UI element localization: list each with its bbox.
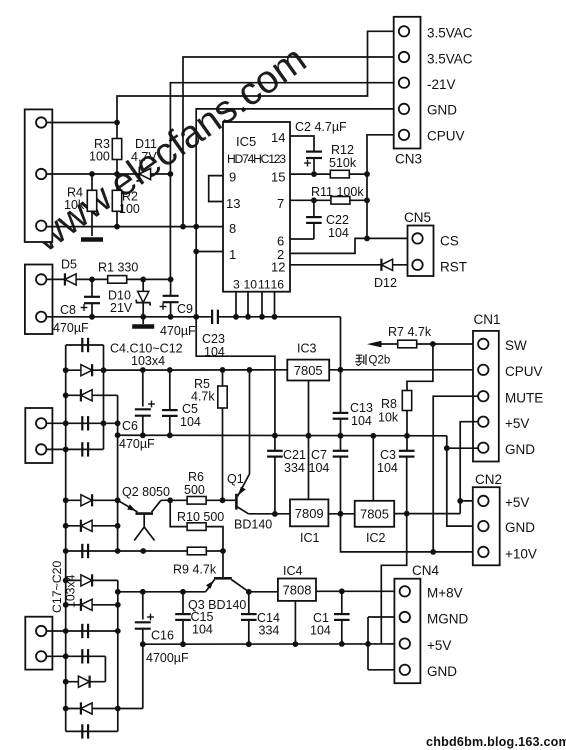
node rung-e-V1 <box>63 679 69 685</box>
svg-text:16: 16 <box>271 278 285 292</box>
capacitor C14 <box>248 592 250 614</box>
connector P1 (3-pin AC input) <box>25 109 53 242</box>
node rungG-V1 <box>63 523 69 529</box>
svg-text:Q1: Q1 <box>227 472 244 486</box>
svg-text:510k: 510k <box>329 156 357 170</box>
wire CN2 +5V stub <box>460 500 478 502</box>
capacitor rung C10 <box>66 344 104 346</box>
wire IC5 pin10 stub <box>247 292 249 317</box>
node rungD-V3 <box>115 420 121 426</box>
pin bracket 9-13 <box>209 176 223 202</box>
node CS junction <box>364 236 370 242</box>
wire IC5 pin16 stub <box>274 292 276 317</box>
svg-text:470µF: 470µF <box>119 437 155 451</box>
node btm-C16 <box>140 641 146 647</box>
svg-text:HD74HC123: HD74HC123 <box>227 152 286 166</box>
svg-text:SW: SW <box>505 338 527 353</box>
svg-text:104: 104 <box>310 624 331 638</box>
svg-text:IC4: IC4 <box>283 564 303 578</box>
wire IC5 pin15 row <box>290 173 367 175</box>
svg-text:BD140: BD140 <box>234 518 272 532</box>
wire CN1 GND stub <box>447 447 478 449</box>
node rung-f-V1 <box>63 706 69 712</box>
resistor R2 <box>116 174 118 191</box>
wire CN4 MGND/GND vertical <box>367 617 369 670</box>
svg-text:D5: D5 <box>61 258 77 272</box>
op-amp U IC5 box <box>223 122 290 292</box>
svg-text:104: 104 <box>351 414 372 428</box>
wire +5V feed to CN4 <box>381 514 406 644</box>
svg-text:+5V: +5V <box>505 495 529 510</box>
capacitor rung C12 <box>46 448 103 450</box>
svg-text:Q2 8050: Q2 8050 <box>122 485 170 499</box>
wire IC5 pin7 row <box>290 199 367 201</box>
regulator IC1 box <box>290 499 328 526</box>
svg-text:C9: C9 <box>177 302 193 316</box>
wire IC2 output <box>394 513 460 515</box>
connector P2 (2-pin) <box>25 265 53 335</box>
wire P2 pin1 row <box>46 278 170 280</box>
wire -21V rail down to C9 junction <box>169 174 171 279</box>
svg-text:3.5VAC: 3.5VAC <box>427 26 473 41</box>
node C15 top <box>180 589 186 595</box>
svg-text:R6: R6 <box>188 470 204 484</box>
wire lower ladder output row <box>118 591 206 593</box>
wire P1 pin1 to R3 top <box>46 122 117 124</box>
wire ladder left rail V1 <box>65 345 67 731</box>
node gndrail-C6 <box>140 432 146 438</box>
wire -21V net to CN3 pin3 <box>170 83 398 174</box>
capacitor rung C4 <box>81 544 83 558</box>
capacitor rung C20 <box>66 730 118 732</box>
wire gnd rail <box>118 434 447 437</box>
node GND/pin8 junction <box>193 224 199 230</box>
node btm-IC4gnd <box>293 641 299 647</box>
capacitor rung C11 <box>46 422 117 424</box>
node C22 top <box>311 197 317 203</box>
svg-text:R7 4.7k: R7 4.7k <box>388 325 432 339</box>
svg-text:CN2: CN2 <box>475 472 502 487</box>
node btm-C15 <box>180 641 186 647</box>
node C2 bottom <box>311 171 317 177</box>
wire +10V line <box>341 514 478 552</box>
connector CN1 <box>473 331 499 462</box>
svg-text:R8: R8 <box>381 397 397 411</box>
node btm-C1 <box>339 641 345 647</box>
node rung-f-V3 <box>115 706 121 712</box>
svg-text:3: 3 <box>233 278 240 292</box>
svg-text:MUTE: MUTE <box>505 391 543 406</box>
node IC2 out / C3 <box>404 511 410 517</box>
zener diode D11 <box>139 168 150 179</box>
diode rung D8 <box>66 681 106 683</box>
node btm-CN4gnd <box>365 641 371 647</box>
svg-text:13: 13 <box>226 196 240 211</box>
svg-text:4.7k: 4.7k <box>191 390 215 404</box>
svg-text:Q2b: Q2b <box>369 355 391 367</box>
node 3.5VAC-2 junction <box>180 224 186 230</box>
resistor R4 <box>91 174 93 191</box>
decorative watermark <box>25 38 314 261</box>
resistor R11 <box>331 197 350 205</box>
wire IC5 pin6 stub <box>290 238 314 240</box>
svg-text:4,7V: 4,7V <box>131 150 157 164</box>
resistor R5 <box>222 370 224 386</box>
capacitor C7 <box>340 436 342 451</box>
svg-text:C7: C7 <box>311 448 327 462</box>
svg-text:IC5: IC5 <box>236 134 256 149</box>
node R6 left <box>167 497 173 503</box>
svg-text:GND: GND <box>427 103 457 118</box>
svg-text:7809: 7809 <box>295 506 324 521</box>
resistor R9 <box>187 547 206 555</box>
capacitor C23 (series in bus) <box>211 310 213 324</box>
wire ground bus <box>46 316 211 318</box>
resistor R7 with arrow to Q2 base <box>367 341 382 348</box>
diode rung D2 <box>66 394 118 396</box>
diode D5 <box>65 274 76 285</box>
svg-text:1: 1 <box>229 247 236 262</box>
svg-text:470µF: 470µF <box>160 324 196 338</box>
node R11 right <box>364 197 370 203</box>
svg-text:7805: 7805 <box>294 363 323 378</box>
node pin10 bus <box>245 314 251 320</box>
diode rung D1 <box>81 365 92 376</box>
wire IC1 input line <box>249 513 291 515</box>
svg-text:C3: C3 <box>380 448 396 462</box>
svg-text:M+8V: M+8V <box>427 586 463 601</box>
svg-text:104: 104 <box>309 461 330 475</box>
svg-text:C17~C20: C17~C20 <box>50 561 64 613</box>
svg-text:CPUV: CPUV <box>427 129 465 144</box>
connector CN4 <box>394 579 420 684</box>
node R9 right junction <box>220 548 226 554</box>
capacitor C5 <box>169 370 171 410</box>
wire IC5 pin11 stub <box>261 292 263 317</box>
svg-text:12: 12 <box>271 260 285 275</box>
node rungD-V1 <box>63 420 69 426</box>
svg-text:IC3: IC3 <box>297 342 317 356</box>
node pin16 bus <box>272 314 278 320</box>
wire IC1-IC2 link <box>328 513 354 515</box>
node D10 bus crossing <box>140 314 146 320</box>
svg-text:CN5: CN5 <box>404 210 431 225</box>
diode rung D3 <box>66 499 118 501</box>
svg-text:10: 10 <box>244 278 258 292</box>
wire IC5 pin12 to RST <box>290 264 412 266</box>
svg-text:500: 500 <box>184 483 205 497</box>
node rung-a-V1 <box>63 578 69 584</box>
wire IC5 pin3 stub <box>235 292 237 317</box>
svg-text:10k: 10k <box>64 198 85 212</box>
svg-text:470µF: 470µF <box>53 321 89 335</box>
capacitor C13 <box>340 370 342 413</box>
capacitor C21 <box>274 436 276 451</box>
wire IC2 gnd stub <box>372 436 374 501</box>
node rung-c-V1 <box>63 628 69 634</box>
capacitor C6 <box>142 370 144 407</box>
svg-text:7: 7 <box>277 196 284 211</box>
node rungH-V1 <box>63 548 69 554</box>
svg-text:CN1: CN1 <box>474 312 501 327</box>
svg-text:+10V: +10V <box>505 547 537 562</box>
node GND vertical on bus <box>193 314 199 320</box>
wire IC3 gnd vertical to IC1 <box>308 381 310 500</box>
node rail-Q1e <box>247 367 253 373</box>
node rail-V2 <box>101 367 107 373</box>
wire GND net continues to C21 rail <box>196 317 275 436</box>
wire CPUV net (CN3 pin5 down R12/R11 to CS) <box>367 135 399 239</box>
svg-text:103x4: 103x4 <box>131 354 165 368</box>
svg-text:R1 330: R1 330 <box>98 261 138 275</box>
node GND/pin1 junction <box>193 249 199 255</box>
capacitor C16 <box>142 592 144 620</box>
svg-text:C5: C5 <box>182 402 198 416</box>
svg-text:C13: C13 <box>350 401 373 415</box>
svg-text:11: 11 <box>258 278 271 292</box>
wire Q2 collector line <box>161 499 187 501</box>
transistor Q3 <box>214 577 232 580</box>
node rungH-V3 <box>115 548 121 554</box>
node R3 bottom / R2 top <box>114 171 120 177</box>
node rung-d-V1 <box>63 653 69 659</box>
ground for D10 <box>132 324 154 329</box>
wire IC5 pin2 to CS <box>290 238 412 253</box>
node C9 bottom <box>168 314 174 320</box>
svg-text:GND: GND <box>505 520 535 535</box>
ground for R4 <box>81 237 103 242</box>
svg-text:10k: 10k <box>378 411 399 425</box>
wire IC5 pin1 stub <box>196 251 223 253</box>
svg-text:103x4: 103x4 <box>64 574 78 608</box>
label arrow-to-Q2b (Chinese dao) <box>355 354 366 365</box>
svg-text:GND: GND <box>427 664 457 679</box>
node rungF-V1 <box>63 497 69 503</box>
capacitor C22 <box>313 200 315 217</box>
svg-text:C6: C6 <box>122 419 138 433</box>
node C7 bottom <box>338 511 344 517</box>
svg-text:104: 104 <box>180 415 201 429</box>
svg-text:C23: C23 <box>202 332 225 346</box>
svg-text:334: 334 <box>259 624 280 638</box>
node lower-row-V3 <box>115 589 121 595</box>
svg-text:7808: 7808 <box>283 583 312 598</box>
regulator IC3 box <box>287 360 329 381</box>
resistor R12 <box>330 170 349 178</box>
wire MUTE line <box>433 396 478 552</box>
node D11 cathode junction <box>168 171 174 177</box>
svg-text:104: 104 <box>328 226 349 240</box>
zener diode D10 <box>142 279 144 291</box>
svg-text:9: 9 <box>229 170 236 185</box>
wire 3.5VAC-1 net to CN3 pin1 <box>117 31 399 122</box>
capacitor C15 <box>182 592 184 614</box>
wire bus to IC3 output node <box>340 317 342 370</box>
node D10 top <box>140 277 146 283</box>
node mute-10V junction <box>430 549 436 555</box>
capacitor rung C17 <box>46 630 117 632</box>
svg-text:8: 8 <box>229 221 236 236</box>
svg-text:C2 4.7µF: C2 4.7µF <box>295 120 347 134</box>
wire IC4 output to CN4 <box>316 590 399 592</box>
svg-text:21V: 21V <box>110 301 133 315</box>
wire ladder rail V2-lower <box>104 656 106 681</box>
svg-text:4700µF: 4700µF <box>146 651 189 665</box>
regulator IC4 box <box>278 579 316 601</box>
node R12 right <box>364 171 370 177</box>
wire GND net from CN3 pin4 <box>196 109 398 317</box>
resistor R1 <box>108 276 127 284</box>
node pin11 bus <box>259 314 265 320</box>
svg-text:MGND: MGND <box>427 612 468 627</box>
svg-text:R10 500: R10 500 <box>177 510 224 524</box>
node IC3out-bus <box>338 367 344 373</box>
resistor R6 <box>187 497 206 505</box>
svg-text:IC2: IC2 <box>366 531 386 545</box>
diode D12 <box>381 259 392 270</box>
connector CN2 <box>473 487 500 565</box>
wire gnd rail to CN1/CN2 GND <box>447 436 478 526</box>
svg-text:104: 104 <box>192 623 213 637</box>
connector CN5 <box>408 226 434 277</box>
node R9-C16vert <box>140 548 146 554</box>
wire bottom gnd rail <box>143 643 399 645</box>
svg-text:R12: R12 <box>331 143 354 157</box>
diode rung D4 <box>66 525 118 527</box>
capacitor C3 <box>406 436 408 450</box>
connector CN3 <box>394 17 421 149</box>
svg-text:100: 100 <box>89 150 110 164</box>
svg-text:C16: C16 <box>151 629 174 643</box>
node C16 top <box>140 589 146 595</box>
wire IC5 pin14 to C2 <box>290 136 314 151</box>
node C8 bottom <box>89 314 95 320</box>
node gndrail-IC2 <box>370 433 376 439</box>
svg-text:104: 104 <box>377 461 398 475</box>
wire R10 branch <box>170 500 187 526</box>
svg-text:D11: D11 <box>135 137 157 151</box>
wire R9 row <box>118 550 188 552</box>
connector P3 (2-pin) <box>25 408 52 463</box>
node rungD-V2 <box>101 420 107 426</box>
transistor Q2 <box>136 512 154 515</box>
node gndrail-C7 <box>338 433 344 439</box>
svg-text:C8: C8 <box>60 303 76 317</box>
svg-text:GND: GND <box>505 442 535 457</box>
transistor Q1 <box>235 494 238 510</box>
node C9 top <box>168 277 174 283</box>
capacitor C1 <box>341 591 343 613</box>
node rung-b-V3 <box>115 602 121 608</box>
node Q1 base junction <box>220 497 226 503</box>
svg-text:334: 334 <box>284 461 305 475</box>
node rail-C6 <box>140 367 146 373</box>
node CN2 +5V junction <box>457 498 463 504</box>
svg-text:IC1: IC1 <box>300 531 320 545</box>
wire +5V up to CN1 <box>460 422 478 514</box>
node CN1 gnd junction <box>444 445 450 451</box>
node C8 top <box>89 277 95 283</box>
node gndrail-V3 <box>115 432 121 438</box>
node pin3 bus <box>233 314 239 320</box>
resistor R8 <box>402 391 411 411</box>
svg-text:CPUV: CPUV <box>505 364 543 379</box>
svg-text:CS: CS <box>440 234 459 249</box>
svg-text:R11 100k: R11 100k <box>311 185 364 199</box>
capacitor C2 <box>306 151 322 153</box>
node gndrail-C21 <box>272 433 278 439</box>
wire R7 junction down to R8 <box>407 344 433 391</box>
node R7-SW junction <box>430 341 436 347</box>
node Q2 emitter / ladder junction <box>115 497 121 503</box>
wire IC4 gnd stub <box>294 601 296 644</box>
node gndrail-R8C3 <box>404 433 410 439</box>
node C21 bottom <box>272 511 278 517</box>
svg-text:100: 100 <box>119 202 140 216</box>
node R4 top <box>89 171 95 177</box>
node rung-c-V3 <box>115 628 121 634</box>
connector P4 (2-pin) <box>25 617 52 670</box>
node rail-R5 <box>220 367 226 373</box>
wire Q3 collector to IC4 <box>249 591 278 593</box>
svg-text:R9 4.7k: R9 4.7k <box>173 563 217 577</box>
capacitor rung C18 <box>46 655 105 657</box>
svg-text:RST: RST <box>440 260 467 275</box>
svg-text:7805: 7805 <box>360 507 389 522</box>
wire R9 junction to Q3 <box>222 551 224 577</box>
svg-text:chbd6bm.blog.163.com: chbd6bm.blog.163.com <box>426 735 566 749</box>
resistor R10 <box>187 523 206 531</box>
diode rung D9 <box>66 708 143 710</box>
svg-text:+5V: +5V <box>505 416 529 431</box>
wire ladder rail V3-lower <box>117 580 119 731</box>
node rungB-V1 <box>63 367 69 373</box>
svg-text:CN4: CN4 <box>412 563 439 578</box>
node btm-C14 <box>246 641 252 647</box>
svg-text:-21V: -21V <box>427 77 456 92</box>
node R3 top junction <box>114 120 120 126</box>
wire P1 pin2 row (D11 row) <box>46 173 170 175</box>
node gndrail-C5 <box>167 432 173 438</box>
node C1 top <box>339 588 345 594</box>
capacitor C8 <box>91 279 93 296</box>
svg-text:14: 14 <box>271 130 285 145</box>
wire IC3 output to CN1 CPUV <box>329 369 478 371</box>
wire C16 rail to lower diode rung <box>142 644 144 708</box>
node Q3 collector <box>246 589 252 595</box>
svg-text:C22: C22 <box>326 213 349 227</box>
wire main supply rail <box>66 369 288 371</box>
svg-text:+5V: +5V <box>427 638 451 653</box>
node rungG-V3 <box>115 523 121 529</box>
svg-text:D12: D12 <box>374 276 397 290</box>
node rung-b-V1 <box>63 602 69 608</box>
svg-text:C21: C21 <box>283 448 306 462</box>
resistor R3 <box>116 123 118 140</box>
node rungE-V1 <box>63 447 69 453</box>
wire ladder rail V3 <box>117 395 119 551</box>
transistor Q1 emitter wire <box>249 370 251 474</box>
svg-text:3.5VAC: 3.5VAC <box>427 52 473 67</box>
regulator IC2 box <box>355 501 395 527</box>
node R2 bottom <box>114 224 120 230</box>
node rail-C5 <box>167 367 173 373</box>
wire P1 pin3 row to IC5 pin8 <box>46 226 223 228</box>
node rungC-V1 <box>63 392 69 398</box>
diode rung D7 <box>66 604 118 606</box>
node IC3gnd-rail <box>306 433 312 439</box>
svg-text:15: 15 <box>271 170 285 185</box>
